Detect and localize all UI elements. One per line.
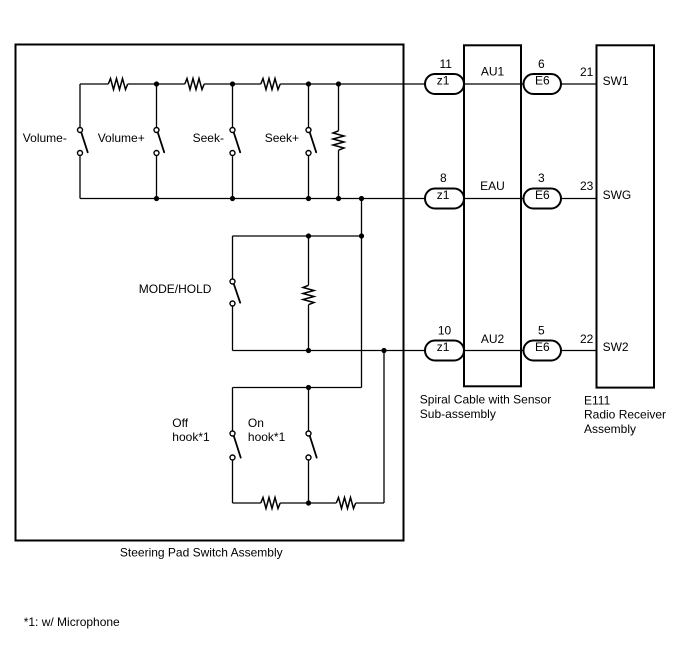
junction dot top rail x232.5 bbox=[230, 81, 235, 86]
resistor R3 (top rail) bbox=[261, 79, 280, 90]
connector E6 pin 3 bbox=[524, 171, 562, 208]
svg-text:EAU: EAU bbox=[480, 179, 505, 193]
svg-text:5: 5 bbox=[538, 324, 545, 338]
wire MODE/HOLD bottom rail to connector bbox=[233, 350, 426, 352]
svg-text:Off: Off bbox=[172, 416, 188, 430]
connector z1 pin 8 bbox=[425, 171, 464, 208]
svg-text:*1: w/ Microphone: *1: w/ Microphone bbox=[24, 615, 120, 629]
resistor R5 (MODE/HOLD parallel) bbox=[303, 236, 314, 351]
junction dot MODE/HOLD bottom rail x308.5 bbox=[306, 348, 311, 353]
resistor R2 (top rail) bbox=[185, 79, 204, 90]
svg-text:SW1: SW1 bbox=[603, 74, 629, 88]
resistor R1 (top rail) bbox=[108, 79, 127, 90]
junction dot top rail x308.5 bbox=[306, 81, 311, 86]
svg-text:Sub-assembly: Sub-assembly bbox=[420, 407, 496, 421]
svg-text:Radio Receiver: Radio Receiver bbox=[584, 408, 666, 422]
wire top rail segment left bbox=[80, 83, 108, 85]
svg-text:AU2: AU2 bbox=[481, 332, 505, 346]
resistor R6 (hook bottom left) bbox=[261, 498, 280, 509]
junction dot top rail x156.5 bbox=[154, 81, 159, 86]
junction dot bottom rail x156.5 bbox=[154, 196, 159, 201]
wire hook network right vertical bbox=[383, 351, 385, 504]
svg-text:hook*1: hook*1 bbox=[248, 430, 286, 444]
wire hook network top rail bbox=[233, 387, 362, 389]
junction dot bottom rail x361.5 bbox=[359, 196, 364, 201]
svg-text:Assembly: Assembly bbox=[584, 422, 636, 436]
wire row2 E6 to radio box bbox=[561, 198, 597, 200]
svg-text:AU1: AU1 bbox=[481, 65, 505, 79]
svg-text:Volume+: Volume+ bbox=[98, 131, 145, 145]
wire descender to MODE/HOLD network bbox=[361, 199, 363, 388]
svg-text:SWG: SWG bbox=[603, 188, 632, 202]
wire hook bottom rail segment 3 bbox=[356, 502, 384, 504]
svg-text:SW2: SW2 bbox=[603, 340, 629, 354]
junction dot hook top rail x308.5 bbox=[306, 385, 311, 390]
svg-text:22: 22 bbox=[580, 332, 594, 346]
svg-text:6: 6 bbox=[538, 57, 545, 71]
svg-text:E111: E111 bbox=[584, 393, 611, 407]
svg-text:3: 3 bbox=[538, 171, 545, 185]
switch Volume- bbox=[78, 84, 88, 199]
resistor R4 (vertical, right of Seek+) bbox=[333, 84, 344, 199]
wire hook bottom rail segment 2 bbox=[280, 502, 336, 504]
junction dot bottom rail x308.5 bbox=[306, 196, 311, 201]
junction dot MODE/HOLD bottom rail x384 bbox=[381, 348, 386, 353]
svg-text:Spiral Cable with Sensor: Spiral Cable with Sensor bbox=[420, 393, 551, 407]
resistor R7 (hook bottom right) bbox=[336, 498, 355, 509]
wire row3 through spiral box bbox=[464, 350, 524, 352]
svg-text:E6: E6 bbox=[535, 188, 550, 202]
wire row2 through spiral box bbox=[464, 198, 524, 200]
svg-text:Volume-: Volume- bbox=[23, 131, 67, 145]
wire row1 through spiral box bbox=[464, 83, 524, 85]
svg-text:23: 23 bbox=[580, 179, 594, 193]
wire bottom rail to connector bbox=[80, 198, 425, 200]
svg-text:z1: z1 bbox=[437, 340, 450, 354]
junction dot MODE/HOLD top rail x308.5 bbox=[306, 233, 311, 238]
switch Seek- bbox=[230, 84, 240, 199]
svg-text:MODE/HOLD: MODE/HOLD bbox=[139, 282, 212, 296]
svg-text:E6: E6 bbox=[535, 74, 550, 88]
switch MODE/HOLD bbox=[230, 236, 240, 351]
wire top rail segment 3 bbox=[204, 83, 261, 85]
svg-text:z1: z1 bbox=[437, 188, 450, 202]
wire top rail segment right to connector bbox=[280, 83, 425, 85]
svg-text:Steering Pad Switch Assembly: Steering Pad Switch Assembly bbox=[120, 545, 283, 559]
wire top rail segment 2 bbox=[128, 83, 185, 85]
box E111 Radio Receiver Assembly bbox=[597, 45, 655, 387]
wire MODE/HOLD top rail bbox=[233, 235, 362, 237]
wire hook bottom rail segment 1 bbox=[233, 502, 261, 504]
connector z1 pin 11 bbox=[425, 57, 464, 94]
box Spiral Cable with Sensor Sub-assembly bbox=[464, 45, 521, 386]
svg-text:z1: z1 bbox=[437, 74, 450, 88]
junction dot bottom rail x338.5 bbox=[336, 196, 341, 201]
switch Volume+ bbox=[154, 84, 164, 199]
svg-text:Seek+: Seek+ bbox=[265, 131, 299, 145]
svg-text:11: 11 bbox=[439, 57, 452, 71]
junction dot MODE/HOLD top rail x361.5 bbox=[359, 233, 364, 238]
connector E6 pin 5 bbox=[524, 324, 562, 361]
svg-text:10: 10 bbox=[438, 324, 452, 338]
switch On hook bbox=[306, 388, 317, 504]
svg-text:E6: E6 bbox=[535, 340, 550, 354]
svg-text:21: 21 bbox=[580, 65, 594, 79]
junction dot bottom rail x232.5 bbox=[230, 196, 235, 201]
svg-text:On: On bbox=[248, 416, 264, 430]
wire row1 E6 to radio box bbox=[561, 83, 597, 85]
switch Off hook bbox=[230, 388, 241, 504]
box Steering Pad Switch Assembly bbox=[16, 45, 404, 541]
junction dot hook bottom rail x308.5 bbox=[306, 500, 311, 505]
wire row3 E6 to radio box bbox=[561, 350, 597, 352]
connector E6 pin 6 bbox=[524, 57, 562, 94]
svg-text:hook*1: hook*1 bbox=[172, 430, 210, 444]
switch Seek+ bbox=[306, 84, 316, 199]
junction dot top rail x338.5 bbox=[336, 81, 341, 86]
svg-text:8: 8 bbox=[440, 171, 447, 185]
connector z1 pin 10 bbox=[425, 324, 464, 361]
svg-text:Seek-: Seek- bbox=[193, 131, 224, 145]
